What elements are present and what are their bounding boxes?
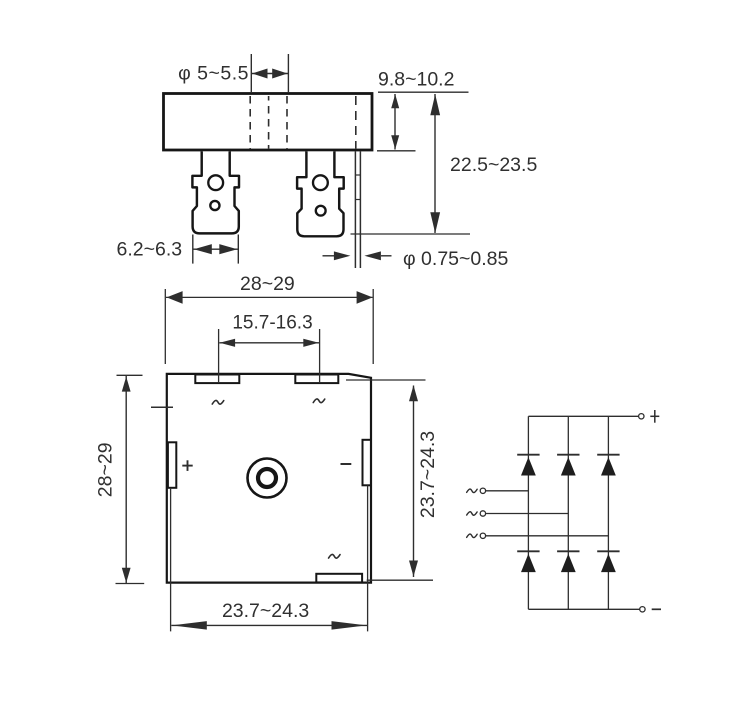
svg-text:28~29: 28~29: [95, 442, 117, 497]
svg-text:23.7~24.3: 23.7~24.3: [222, 600, 309, 622]
svg-text:22.5~23.5: 22.5~23.5: [450, 154, 537, 176]
svg-text:φ 5~5.5: φ 5~5.5: [178, 63, 249, 85]
svg-text:9.8~10.2: 9.8~10.2: [378, 69, 454, 91]
svg-text:6.2~6.3: 6.2~6.3: [117, 239, 183, 261]
svg-text:28~29: 28~29: [240, 273, 295, 295]
svg-text:φ 0.75~0.85: φ 0.75~0.85: [403, 248, 509, 270]
svg-text:23.7~24.3: 23.7~24.3: [417, 431, 439, 518]
svg-text:15.7-16.3: 15.7-16.3: [232, 313, 312, 334]
